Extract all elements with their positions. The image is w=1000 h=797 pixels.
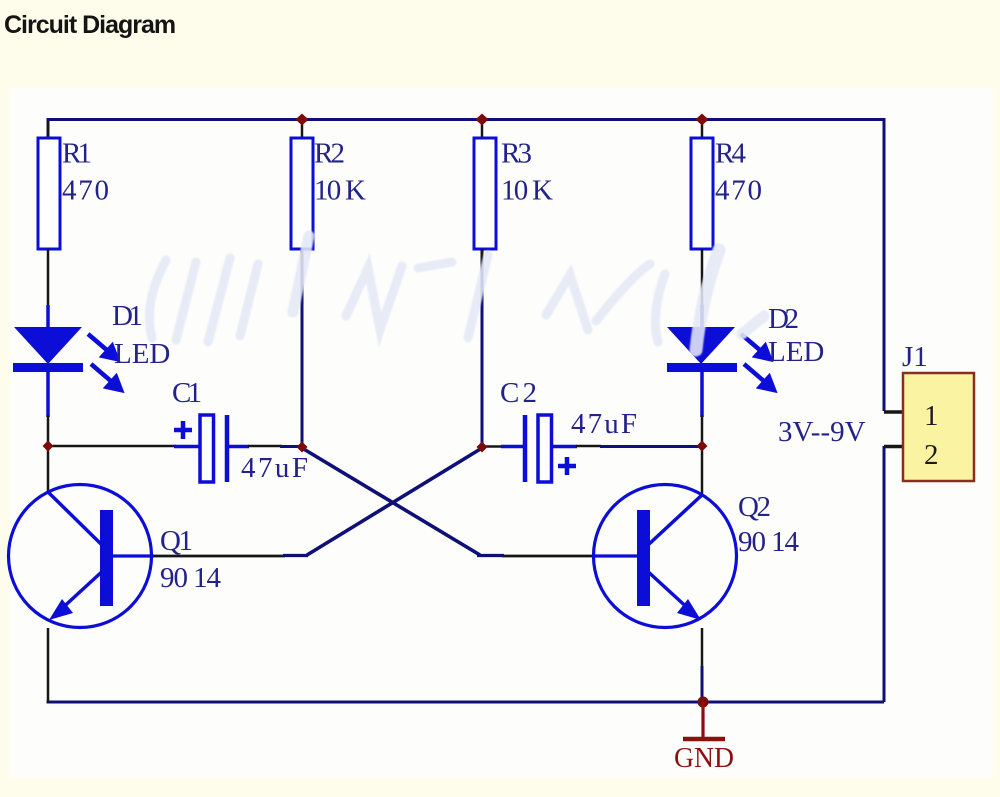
svg-text:470: 470: [715, 175, 762, 207]
svg-text:C1: C1: [172, 377, 202, 409]
svg-text:D2: D2: [768, 303, 799, 335]
svg-text:90 14: 90 14: [738, 526, 800, 558]
svg-text:R2: R2: [314, 138, 345, 170]
svg-text:LED: LED: [768, 336, 824, 368]
svg-text:2: 2: [924, 439, 939, 471]
svg-text:Q1: Q1: [160, 525, 193, 557]
svg-text:C2: C2: [500, 377, 537, 409]
svg-text:10 K: 10 K: [501, 175, 553, 207]
svg-text:47uF: 47uF: [241, 452, 308, 484]
svg-text:Q2: Q2: [738, 491, 771, 523]
svg-text:470: 470: [62, 175, 109, 207]
svg-text:D1: D1: [112, 300, 143, 332]
svg-text:R1: R1: [62, 138, 92, 170]
svg-text:R3: R3: [501, 138, 532, 170]
svg-text:GND: GND: [674, 743, 734, 774]
svg-text:47uF: 47uF: [571, 408, 637, 440]
svg-text:1: 1: [924, 400, 939, 432]
svg-text:R4: R4: [715, 138, 747, 170]
svg-text:10 K: 10 K: [314, 175, 366, 207]
svg-text:J1: J1: [902, 341, 928, 373]
svg-text:LED: LED: [114, 338, 170, 370]
svg-text:90 14: 90 14: [160, 562, 222, 594]
svg-text:3V--9V: 3V--9V: [778, 416, 866, 448]
